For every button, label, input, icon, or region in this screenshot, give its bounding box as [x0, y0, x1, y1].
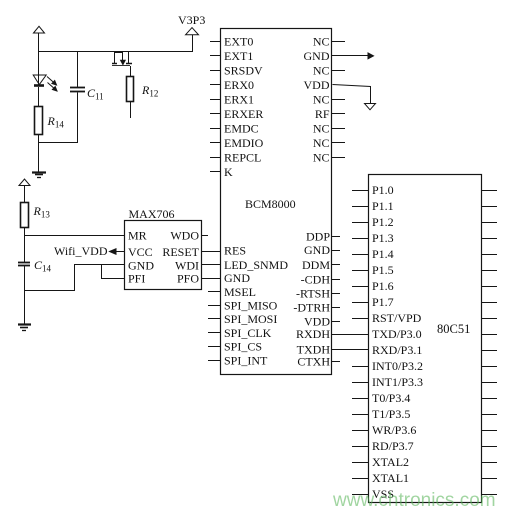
svg-text:P1.6: P1.6: [372, 279, 394, 293]
V3P3 arrow: [186, 28, 199, 35]
svg-text:DDP: DDP: [306, 230, 330, 244]
svg-text:P1.2: P1.2: [372, 215, 394, 229]
svg-text:ERX1: ERX1: [224, 93, 254, 107]
svg-text:PFI: PFI: [128, 272, 145, 286]
svg-text:T0/P3.4: T0/P3.4: [372, 391, 410, 405]
svg-text:www.chtronics.com: www.chtronics.com: [332, 490, 496, 511]
svg-text:-DTRH: -DTRH: [293, 301, 330, 315]
wire: [192, 35, 194, 52]
wire top rail: [39, 51, 192, 53]
wire: [38, 135, 40, 172]
wire CTXH stub: [332, 361, 340, 363]
svg-text:NC: NC: [313, 136, 330, 150]
op-amp U1 BCM8000 box: [221, 29, 332, 375]
svg-text:P1.4: P1.4: [372, 247, 394, 261]
wire VDD net: [333, 85, 371, 104]
svg-text:P1.0: P1.0: [372, 183, 394, 197]
svg-text:RXDH: RXDH: [296, 327, 330, 341]
wire: [38, 33, 40, 52]
power arrow top-left: [34, 26, 45, 33]
svg-text:RXD/P3.1: RXD/P3.1: [372, 343, 422, 357]
node Wifi_VDD arrow: [110, 249, 117, 255]
wire branch to C11 bottom: [39, 93, 78, 143]
svg-text:RD/P3.7: RD/P3.7: [372, 439, 414, 453]
wire: [24, 266, 26, 324]
svg-text:RESET: RESET: [162, 245, 199, 259]
svg-text:LED_SNMD: LED_SNMD: [224, 258, 288, 272]
wire BCM left lower stubs: [208, 291, 221, 293]
svg-text:REPCL: REPCL: [224, 151, 261, 165]
svg-text:XTAL1: XTAL1: [372, 471, 409, 485]
svg-text:GND: GND: [224, 271, 250, 285]
wire WDI to LED_SNMD: [202, 264, 221, 266]
svg-text:ERXER: ERXER: [224, 107, 263, 121]
svg-text:RES: RES: [224, 244, 246, 258]
svg-text:MAX706: MAX706: [129, 207, 175, 221]
svg-text:DDM: DDM: [302, 258, 330, 272]
LED D1: [38, 52, 40, 85]
svg-text:K: K: [224, 165, 233, 179]
wire PFI link: [102, 265, 125, 279]
resistor R12: [127, 77, 134, 102]
wire: [24, 227, 26, 262]
svg-text:SPI_CLK: SPI_CLK: [224, 326, 272, 340]
svg-text:VCC: VCC: [128, 245, 153, 259]
svg-text:NC: NC: [313, 122, 330, 136]
svg-text:RST/VPD: RST/VPD: [372, 311, 422, 325]
svg-text:SRSDV: SRSDV: [224, 64, 263, 78]
svg-text:-RTSH: -RTSH: [296, 287, 330, 301]
svg-text:BCM8000: BCM8000: [245, 197, 296, 211]
svg-text:NC: NC: [313, 93, 330, 107]
svg-text:EMDC: EMDC: [224, 122, 259, 136]
wire PFO to GND: [202, 278, 221, 280]
wire GND net with arrow: [332, 55, 368, 57]
svg-text:INT1/P3.3: INT1/P3.3: [372, 375, 423, 389]
svg-text:-CDH: -CDH: [301, 273, 331, 287]
wire BCM right lower stubs: [332, 236, 340, 238]
svg-text:TXD/P3.0: TXD/P3.0: [372, 327, 422, 341]
wire GND return: [25, 265, 125, 291]
ground: [32, 171, 46, 173]
wire: [24, 186, 26, 203]
svg-text:T1/P3.5: T1/P3.5: [372, 407, 410, 421]
svg-text:ERX0: ERX0: [224, 78, 254, 92]
wire 80C51 right stubs: [481, 190, 497, 192]
wire RXDH to TXD/P3.0: [332, 334, 368, 336]
svg-text:WR/P3.6: WR/P3.6: [372, 423, 416, 437]
svg-text:Wifi_VDD: Wifi_VDD: [54, 244, 108, 258]
transistor U3 80C51 box: [369, 175, 482, 503]
svg-text:SPI_CS: SPI_CS: [224, 340, 262, 354]
svg-text:P1.7: P1.7: [372, 295, 394, 309]
wire BCM left top stubs: [210, 41, 221, 43]
svg-text:INT0/P3.2: INT0/P3.2: [372, 359, 423, 373]
wire TXDH to RXD/P3.1: [332, 349, 368, 351]
wire 80C51 left stubs: [352, 190, 368, 192]
resistor R13: [21, 203, 29, 228]
wire RESET to RES: [202, 251, 221, 253]
wire MR net: [24, 235, 125, 237]
svg-text:GND: GND: [304, 243, 330, 257]
svg-text:GND: GND: [128, 259, 154, 273]
power arrow left mid: [19, 179, 30, 186]
svg-text:EXT0: EXT0: [224, 35, 253, 49]
svg-text:V3P3: V3P3: [178, 13, 205, 27]
svg-text:WDI: WDI: [175, 259, 199, 273]
svg-text:XTAL2: XTAL2: [372, 455, 409, 469]
svg-text:P1.5: P1.5: [372, 263, 394, 277]
svg-text:EXT1: EXT1: [224, 49, 253, 63]
svg-text:VDD: VDD: [304, 78, 330, 92]
svg-text:GND: GND: [304, 49, 330, 63]
svg-text:WDO: WDO: [170, 229, 199, 243]
svg-text:SPI_INT: SPI_INT: [224, 353, 268, 367]
svg-text:P1.3: P1.3: [372, 231, 394, 245]
capacitor C11: [77, 52, 79, 87]
svg-text:NC: NC: [313, 151, 330, 165]
transistor Q1: [114, 52, 116, 64]
ground: [18, 323, 31, 325]
svg-text:NC: NC: [313, 64, 330, 78]
svg-text:PFO: PFO: [177, 272, 199, 286]
wire BCM right top stubs: [332, 41, 345, 43]
svg-text:P1.1: P1.1: [372, 199, 394, 213]
svg-text:RF: RF: [315, 107, 330, 121]
svg-text:NC: NC: [313, 35, 330, 49]
svg-text:MSEL: MSEL: [224, 285, 256, 299]
wire WDO stub: [202, 235, 208, 237]
resistor R14: [35, 107, 43, 135]
svg-text:MR: MR: [128, 229, 147, 243]
svg-text:EMDIO: EMDIO: [224, 136, 264, 150]
wire: [130, 102, 132, 118]
svg-text:80C51: 80C51: [437, 322, 470, 336]
capacitor C14: [18, 262, 30, 264]
op-amp U2 MAX706 box: [125, 221, 202, 290]
svg-text:SPI_MOSI: SPI_MOSI: [224, 312, 277, 326]
svg-text:CTXH: CTXH: [297, 355, 330, 369]
svg-text:SPI_MISO: SPI_MISO: [224, 299, 278, 313]
